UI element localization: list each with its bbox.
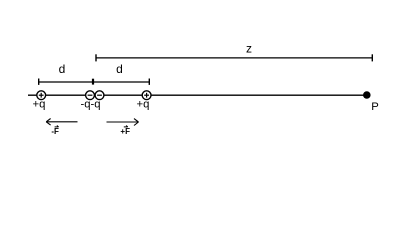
- svg-text:-q-q: -q-q: [80, 99, 100, 111]
- svg-text:+q: +q: [33, 99, 46, 111]
- svg-text:z: z: [246, 41, 252, 55]
- dimension line d-d: [39, 79, 150, 85]
- svg-text:P: P: [371, 101, 379, 113]
- label +F vector: [120, 126, 130, 137]
- svg-text:+q: +q: [137, 99, 150, 111]
- svg-text:d: d: [59, 62, 66, 76]
- arrow +F (pointing right): [107, 119, 139, 126]
- node P dot: [363, 91, 371, 99]
- wire: main axis line: [28, 94, 367, 96]
- charge +q (rightmost): [142, 91, 151, 100]
- arrow -F (pointing left): [46, 119, 77, 126]
- dimension line z: [96, 54, 373, 61]
- charge +q (leftmost): [37, 91, 46, 100]
- svg-text:-F: -F: [51, 127, 59, 136]
- charge -q (right of center pair): [95, 91, 104, 100]
- svg-text:d: d: [116, 62, 123, 76]
- charge -q (left of center pair): [86, 91, 95, 100]
- svg-text:+F: +F: [120, 127, 130, 136]
- label -F vector: [51, 126, 59, 137]
